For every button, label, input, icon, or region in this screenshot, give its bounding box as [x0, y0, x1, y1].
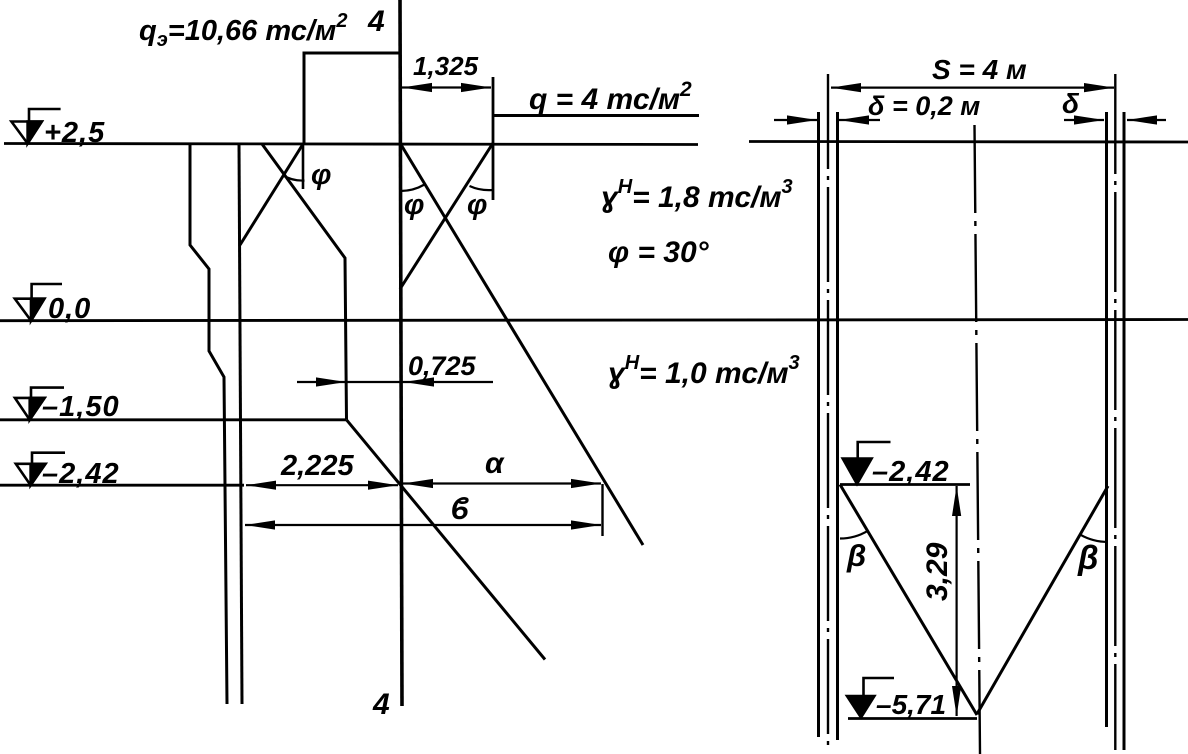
level marker -1,50: [15, 388, 64, 420]
extension tick at a end: [601, 484, 603, 536]
level marker 0,0: [15, 284, 62, 321]
diagonal wedge left X down-right: [262, 144, 347, 420]
left sheet pile wall face inner: [836, 112, 839, 740]
svg-text:φ: φ: [467, 189, 487, 221]
level marker -2,42 left: [16, 453, 65, 486]
load line q: [493, 114, 699, 117]
svg-text:4: 4: [372, 688, 390, 721]
slip diagonal left beta: [840, 485, 977, 716]
svg-text:–2,42: –2,42: [42, 458, 120, 490]
dimension delta right wall: [1064, 115, 1166, 124]
svg-text:φ: φ: [404, 189, 424, 221]
phi arc at load edge: [470, 186, 493, 190]
slip diagonal right beta: [977, 486, 1108, 714]
svg-text:+2,5: +2,5: [44, 117, 105, 149]
dimension 0,725: [297, 377, 493, 386]
level marker -5,71: [847, 678, 894, 718]
svg-text:δ = 0,2 м: δ = 0,2 м: [868, 91, 980, 121]
stepped passive pressure line: [190, 143, 227, 704]
short vertical below rect corner: [302, 143, 305, 189]
diagonal A from wall top: [400, 143, 643, 545]
svg-text:q = 4 тс/м2: q = 4 тс/м2: [529, 78, 692, 116]
pressure rectangle q_e: [304, 53, 400, 143]
svg-text:β: β: [1077, 539, 1098, 576]
svg-text:ɣН= 1,0 тс/м3: ɣН= 1,0 тс/м3: [608, 352, 800, 390]
diagonal active wedge from load edge: [400, 143, 493, 289]
svg-text:0,0: 0,0: [48, 293, 91, 325]
diagonal wedge left X down-left: [240, 144, 303, 245]
ground line +2,5 right: [749, 140, 1188, 143]
level line -2,42: [0, 484, 244, 487]
dimension a: [403, 479, 601, 488]
left sheet pile wall face outer: [817, 112, 820, 737]
beta arc left: [840, 531, 868, 539]
dimension S=4m: [831, 83, 1114, 92]
wire main pile axis 4-4: [400, 0, 402, 706]
svg-text:2,225: 2,225: [280, 450, 354, 482]
level marker +2,5: [11, 109, 60, 144]
svg-text:S = 4 м: S = 4 м: [932, 54, 1027, 85]
svg-text:δ: δ: [1062, 88, 1080, 119]
center axis dash-dot: [975, 125, 981, 754]
right sheet pile wall face inner: [1105, 112, 1108, 727]
svg-text:3,29: 3,29: [921, 542, 954, 601]
level line 0,0: [0, 320, 1188, 321]
svg-text:ɣН= 1,8 тс/м3: ɣН= 1,8 тс/м3: [601, 176, 793, 214]
svg-text:qэ=10,66 тс/м2: qэ=10,66 тс/м2: [139, 10, 348, 51]
svg-text:β: β: [846, 538, 866, 573]
load edge line: [492, 77, 495, 200]
right wall axis dash-dot: [1114, 74, 1116, 750]
svg-text:φ: φ: [311, 159, 331, 191]
svg-text:φ = 30°: φ = 30°: [608, 236, 710, 269]
dimension 2,225: [246, 481, 398, 490]
left wall axis dash-dot: [827, 74, 829, 745]
beta arc right: [1080, 535, 1108, 542]
svg-text:4: 4: [367, 5, 385, 38]
ground line +2,5 left: [4, 144, 698, 145]
svg-text:α: α: [485, 447, 505, 480]
dimension 3,29: [952, 486, 961, 716]
right sheet pile wall face outer: [1123, 112, 1126, 750]
dimension b: [245, 520, 601, 529]
dimension delta left wall: [774, 115, 880, 124]
svg-text:–5,71: –5,71: [876, 689, 946, 720]
level line -2,42 right: [840, 483, 970, 486]
svg-text:ϐ: ϐ: [451, 491, 469, 526]
level line -1,50: [0, 418, 346, 421]
diagonal B lower slip line: [347, 420, 546, 660]
svg-text:–1,50: –1,50: [42, 391, 120, 423]
level marker -2,42 right: [843, 442, 891, 484]
phi arc left X: [283, 176, 304, 181]
wire long vertical wall face left: [239, 143, 242, 704]
dimension 1,325: [402, 83, 491, 92]
level line -5,71: [848, 717, 977, 720]
phi arc at main line: [400, 185, 425, 192]
svg-text:0,725: 0,725: [408, 351, 477, 381]
svg-text:1,325: 1,325: [413, 51, 479, 81]
